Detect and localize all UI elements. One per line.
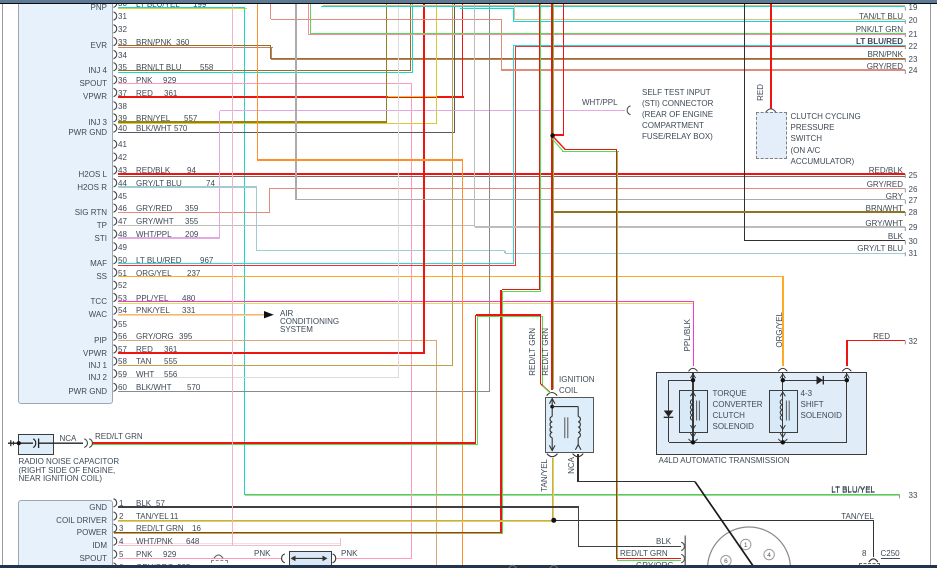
pin 39 INJ 3 label and wire name BRN/YEL 557 [88,118,107,127]
wire TAN/YEL dark run to C250 [554,520,875,521]
ignition coil U1 transformer symbol [541,384,583,457]
wire BRN/WHT to right edge pin 28 [553,211,906,212]
wire pin54 PNK/YEL 331 to A/C arrow [118,314,264,315]
right edge pin 28 BRN/WHT [866,204,903,213]
RED rotated label above switch [756,84,765,101]
right edge pin 19 LT BLU/ORG [856,0,903,6]
torque converter clutch solenoid box [679,390,708,433]
right edge pin 31 GRY/LT BLU [857,244,903,253]
wire pin50 LT BLU/RED 967 up to right edge pin 22 [118,263,514,264]
wire pin2 COIL DRIVER TAN/YEL 11 [118,520,554,521]
wire pin30 LT BLU/YEL 199 horizontal [118,7,245,8]
right edge pin 20 TAN/LT BLU [859,12,903,21]
svg-text:6: 6 [724,558,728,565]
wire A4LD bottom bus [669,442,847,443]
STI connector arc [627,106,630,115]
distributor cap circle [708,527,791,568]
wire PNK/LT GRN from top to right edge pin 21 [308,4,309,35]
4-3 SHIFT SOLENOID text [801,389,813,398]
wire RED/LT GRN elbow left [502,289,540,290]
wire RED/LT GRN main vertical from top [539,3,540,290]
pin 56 PIP label and wire name GRY/ORG 395 [94,336,107,345]
BLK label at distributor [656,537,671,546]
SELF TEST INPUT STI connector text [642,88,711,97]
lower connector pin 1 GND BLK 57 [89,503,107,512]
RED/LT GRN label at capacitor wire [95,432,143,441]
wire A4LD TCC solenoid vertical [692,372,693,443]
left page border line [2,4,3,565]
inline connector arcs and arrow on SPOUT wire [282,554,336,563]
bottom edge connector caret 1 [504,561,524,568]
wire RED/LT GRN branch to distributor [565,149,617,150]
lower connector block (pins 1-6) [18,500,113,568]
wire RED/LT GRN mid horizontal link [476,314,542,315]
wire pin53 PPL/YEL 480 down to TCC solenoid [118,301,694,302]
radio noise capacitor text [19,457,120,466]
A4LD AUTOMATIC TRANSMISSION label [659,456,790,465]
pin 43 H2OS L label and wire name RED/BLK 94 [79,170,107,179]
wire TAN/YEL from ignition coil down to junction [552,458,553,521]
pin 37 VPWR label and wire name RED 361 [83,92,107,101]
pin 54 WAC label and wire name PNK/YEL 331 [89,310,107,319]
wire GRY/RED elbow from top to right edge pin 24 [270,4,271,19]
wire pin56 GRY/ORG 395 down to distributor [118,340,437,341]
NCA label at capacitor [60,434,77,443]
bottom edge connector caret 2 [545,561,565,568]
right edge pin 25 RED/BLK [869,166,903,175]
junction dot at STI branch [550,133,555,138]
ORG/YEL rotated label [775,312,784,348]
radio noise capacitor symbol [8,439,92,449]
wire pin57 RED 361 VPWR up to top [118,352,425,354]
right edge wire end ticks [900,7,906,499]
pin 45 (unused) [118,192,127,201]
distributor terminal 6 [721,556,731,566]
pin 32 (unused) [118,25,127,34]
A4LD junction dots [691,378,849,444]
lower connector pin 6 GRY/ORG 395 [119,563,123,568]
pin 41 (unused) [118,140,127,149]
wire RED/LT GRN drop to POWER pin 3 [500,290,501,533]
pin 36 SPOUT label and wire name PNK 929 [79,79,107,88]
pin 48 STI label and wire name WHT/PPL 209 [95,234,107,243]
WHT/PPL label at STI wire [582,98,618,107]
pin 38 (unused) [118,102,127,111]
pin 46 SIG RTN label and wire name GRY/RED 359 [75,208,107,217]
wire RED to right edge pin 32 and A4LD box [846,340,905,342]
PPL/BLK rotated label [683,319,692,351]
wire pin51 ORG/YEL 237 down to 4-3 shift solenoid [118,276,784,277]
4-3 shift solenoid box [769,390,798,433]
wire LT BLU/YEL vertical drop to circuit 199 run [244,7,245,494]
wire pin58 TAN 555 up to top [118,365,453,366]
distributor terminal 1 [741,539,751,549]
wire RED jog into junction [563,3,564,135]
pin 57 VPWR label and wire name RED 361 [83,349,107,358]
wire GRY/WHT upper vertical to right edge pin 29 [474,3,475,227]
NCA wire diagonal to distributor [695,482,754,567]
pin 53 TCC label and wire name PPL/YEL 480 [91,297,107,306]
pin 47 TP label and wire name GRY/WHT 355 [97,221,107,230]
clutch cycling pressure switch text [791,112,861,121]
pin 30 PNP label and wire name LT BLU/YEL 199 [91,3,107,12]
wire pin44 GRY/LT BLU 74 to right edge pin 31 [118,186,257,187]
RED/LT GRN diagonal from junction [552,137,565,151]
pin 52 (unused) [118,281,127,290]
PNK labels at inline connector [254,549,270,558]
wire TAN/LT BLU tan from top to right edge pin 20 [514,4,515,20]
wire A4LD 4-3 solenoid vertical [782,372,783,443]
top header bar [0,0,937,4]
wire pin43 RED/BLK 94 to right edge pin 25 [118,173,905,174]
right edge pin 23 BRN/PNK [867,50,903,59]
wire pin5 SPOUT PNK 929 with inline connector [118,558,282,559]
right edge pin 26 GRY/RED [867,180,903,189]
wire RED/LT GRN second vertical to ignition coil [551,3,552,390]
right edge pin 22 LT BLU/RED [856,37,903,46]
wire A4LD internal left branch with diode [668,380,669,442]
GRY/ORG label at distributor [636,561,674,568]
wire GRY from top to right edge pin 27 [295,4,296,200]
C250 connector arc [869,559,878,562]
dashed box of inline connector at bottom left [211,560,228,568]
RED/LT GRN label at distributor [620,549,668,558]
A4LD right pin connector arc [842,368,851,378]
PCM connector block (pins 30-60) [18,0,113,404]
pin 35 INJ 4 label and wire name BRN/LT BLU 558 [88,66,107,75]
right edge pin 33 LT BLU/YEL [831,486,875,495]
wire WHT/PNK vertical at left [232,4,233,545]
wire pin60 BLK/WHT 570 up to top [118,391,490,392]
wire pin1 GND BLK 57 to distributor [118,506,579,507]
ignition coil box [545,397,594,453]
TORQUE CONVERTER CLUTCH SOLENOID text [713,389,747,398]
wire NCA from ignition coil to distributor [577,454,578,483]
connector pin socket arcs [114,0,117,568]
wire RED/LT GRN drop to radio noise capacitor [475,315,476,443]
NCA rotated label below coil [567,457,576,474]
svg-text:4: 4 [767,552,771,559]
wire A4LD diode link to right pin [783,380,847,381]
radio noise capacitor box [18,434,54,455]
RED/LT GRN rotated labels at ignition coil [528,328,537,376]
right edge pin 30 BLK [888,232,903,241]
IGNITION COIL label [559,375,595,384]
wire pin48 WHT/PPL 209 to STI connector [118,237,220,239]
TAN/YEL label near right edge [841,512,874,521]
diode D2 in A4LD [817,376,824,385]
pin 51 SS label and wire name ORG/YEL 237 [96,272,107,281]
pin 59 INJ 2 label and wire name WHT 556 [88,373,107,382]
wire pin39 BRN/YEL 557 [118,121,387,122]
wire LT BLU/YEL 199 bottom run to pin 33 right edge [245,494,899,495]
4-3 shift solenoid coil [778,368,789,441]
lower connector pin 3 POWER RED/LT GRN 16 [77,528,107,537]
pin 34 (unused) [118,51,127,60]
wire orange elbow down to bottom [257,4,258,161]
junction dot TAN/YEL [551,518,556,523]
pin 44 H2OS R label and wire name GRY/LT BLU 74 [77,183,107,192]
C250 dashed connector box [859,563,880,568]
wire A4LD right pin vertical [846,372,847,443]
lower connector pin 2 COIL DRIVER TAN/YEL 11 [56,516,107,525]
right edge pin 27 GRY [886,192,903,201]
wire pin37 RED 361 VPWR [118,96,464,98]
LT BLU/YEL label near right edge [831,485,875,494]
wire pin40 BLK/WHT 570 [118,132,455,133]
pin 31 (unused) [118,12,127,21]
wire pin47 GRY/WHT 355 to right edge pin 29 [118,225,475,226]
A4LD automatic transmission box [656,372,867,455]
right edge pin 32 RED [873,332,890,341]
bottom edge bar [0,565,937,568]
torque converter clutch solenoid coil [689,368,700,441]
pin 60 PWR GND label and wire name BLK/WHT 570 [68,387,107,396]
right page border line [930,4,931,565]
pin 33 EVR label and wire name BRN/PNK 360 [91,41,107,50]
pin 55 (unused) [118,320,127,329]
wire LT BLU/ORG from top to right edge pin 19 [323,5,905,6]
wire pin4 IDM WHT/PNK 648 [118,545,341,546]
pin 49 (unused) [118,243,127,252]
svg-text:1: 1 [744,542,748,549]
wire pin35 BRN/LT BLU 558 [118,70,411,71]
8 and C250 labels [862,549,866,558]
diode D1 in A4LD [664,411,674,418]
lower connector pin 4 IDM WHT/PNK 648 [92,541,107,550]
wire pin46 GRY/RED 359 to right edge pin 26 [118,212,270,213]
distributor connector bracket [681,536,685,566]
clutch cycling pressure switch box [756,112,787,159]
wire RED down to clutch cycling pressure switch [770,3,772,109]
air conditioning system arrow [264,311,274,318]
TAN/YEL rotated label below coil [540,459,549,492]
wire pin59 WHT 556 up to top [118,377,399,378]
pin 42 (unused) [118,153,127,162]
wire pin36 PNK 929 [118,83,412,84]
distributor terminal 4 [764,549,774,559]
wire pin33 BRN/PNK 360 [118,45,271,46]
pin 40 PWR GND label and wire name BLK/WHT 570 [68,128,107,137]
right edge pin 21 PNK/LT GRN [856,25,903,34]
lower connector pin 5 SPOUT PNK 929 [79,554,107,563]
wire lt blu jog joining TAN/LT BLU run [460,8,514,9]
wire BLK from top to right edge pin 30 [744,3,745,241]
inline connector caret at SPOUT wire left [214,555,223,558]
AIR CONDITIONING SYSTEM text [280,309,293,318]
clutch switch connector arc [766,109,776,112]
pin 50 MAF label and wire name LT BLU/RED 967 [90,259,107,268]
wire RED/LT GRN drop to ignition coil left [540,315,541,384]
right edge pin 29 GRY/WHT [865,219,903,228]
right edge pin 24 GRY/RED [867,62,903,71]
inline connector box on SPOUT pink wire [289,551,332,568]
pin 58 INJ 1 label and wire name TAN 555 [88,361,107,370]
